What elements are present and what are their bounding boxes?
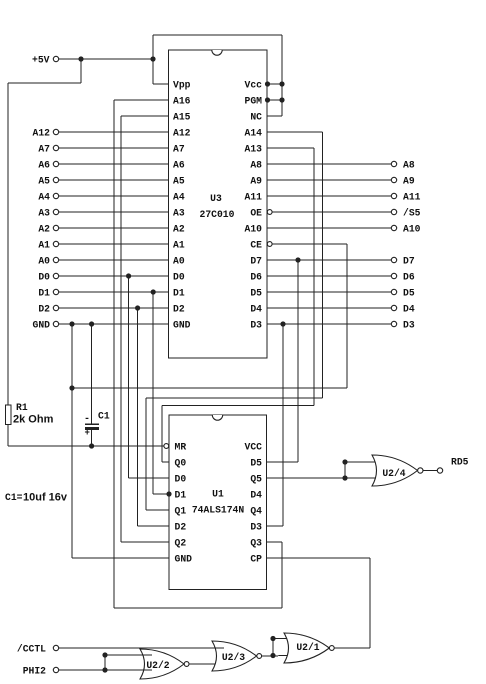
svg-text:D6: D6 — [250, 272, 262, 283]
svg-text:CE: CE — [250, 240, 262, 251]
svg-text:A5: A5 — [38, 176, 50, 187]
wire A6 to U3 — [59, 163, 169, 165]
wire A7 to U3 — [59, 147, 169, 149]
svg-text:A8: A8 — [403, 160, 415, 171]
svg-text:A6: A6 — [173, 160, 185, 171]
junction U2/1 lower input — [270, 653, 275, 658]
svg-text:D4: D4 — [403, 304, 415, 315]
svg-text:74ALS174N: 74ALS174N — [192, 505, 245, 516]
node A5 input terminal — [38, 176, 58, 187]
op chip U1 74ALS174N hex D flip-flop body — [169, 415, 267, 590]
svg-text:-: - — [84, 414, 90, 425]
op chip U3 27C010 EPROM body — [169, 50, 268, 358]
wire U1 D1 stub — [153, 493, 169, 495]
wire OE to /S5 terminal — [272, 211, 391, 213]
junction U1 D1 pin — [166, 491, 171, 496]
wire D0 vertical — [128, 276, 130, 478]
node A7 input terminal — [38, 144, 58, 155]
wire A11 to terminal — [267, 195, 391, 197]
svg-text:A8: A8 — [250, 160, 262, 171]
svg-text:A11: A11 — [245, 192, 263, 203]
svg-text:MR: MR — [175, 442, 187, 453]
svg-text:A13: A13 — [245, 144, 263, 155]
junction Vcc rail — [279, 81, 284, 86]
pin U2/2 output bubble — [184, 662, 189, 667]
svg-text:A0: A0 — [173, 256, 185, 267]
node D6 output terminal — [391, 272, 415, 283]
svg-text:D5: D5 — [250, 288, 262, 299]
node RD5 terminal — [437, 457, 468, 474]
wire clock vertical — [369, 558, 371, 648]
junction U2/2 upper input — [102, 652, 107, 657]
svg-text:U2/1: U2/1 — [296, 642, 319, 653]
wire +5V branch down — [80, 59, 82, 83]
svg-text:/S5: /S5 — [403, 208, 421, 219]
wire A14 vertical — [322, 132, 324, 398]
svg-text:Q3: Q3 — [250, 538, 262, 549]
U1 right pin labels — [245, 442, 263, 565]
or-gate U2/4 — [372, 455, 418, 486]
wire CP stub — [267, 557, 371, 559]
svg-text:A10: A10 — [245, 224, 263, 235]
node A0 input terminal — [38, 256, 58, 267]
svg-text:OE: OE — [250, 208, 262, 219]
svg-text:R1: R1 — [16, 402, 28, 413]
node D7 output terminal — [391, 256, 415, 267]
svg-text:D2: D2 — [175, 522, 187, 533]
wire U1 GND stub — [72, 557, 169, 559]
svg-text:U2/4: U2/4 — [382, 468, 405, 479]
wire A3 to U3 — [59, 211, 169, 213]
wire Q3 wrap horizontal — [114, 607, 282, 609]
svg-text:Q5: Q5 — [250, 474, 262, 485]
wire Q5 to gate — [267, 477, 385, 479]
svg-text:D3: D3 — [250, 522, 262, 533]
svg-text:CP: CP — [250, 554, 262, 565]
wire Q3 vertical — [281, 542, 283, 608]
junction U2/4 upper input — [342, 459, 347, 464]
svg-text:D3: D3 — [403, 320, 415, 331]
wire GND vertical left — [71, 324, 73, 558]
wire +5V down to Vcc — [281, 35, 283, 116]
node D4 output terminal — [391, 304, 415, 315]
svg-text:A14: A14 — [245, 128, 263, 139]
svg-text:Vpp: Vpp — [173, 80, 191, 91]
wire Vpp feed — [153, 83, 169, 85]
wire U2/1 upper input — [273, 638, 296, 640]
wire +5V branch left — [8, 82, 81, 84]
wire U2/4 output — [423, 470, 437, 472]
svg-text:D2: D2 — [173, 304, 185, 315]
svg-text:A11: A11 — [403, 192, 421, 203]
junction GND CE tap — [69, 385, 74, 390]
node D1 input terminal — [38, 288, 58, 299]
pin U2/3 output bubble — [257, 654, 262, 659]
svg-text:A16: A16 — [173, 96, 191, 107]
junction D1 branch — [151, 289, 156, 294]
node A3 input terminal — [38, 208, 58, 219]
svg-text:2k Ohm: 2k Ohm — [13, 414, 54, 426]
svg-text:A1: A1 — [173, 240, 185, 251]
wire U2/3 output — [262, 655, 297, 658]
svg-text:+: + — [85, 428, 90, 438]
node A11 output terminal — [391, 192, 420, 203]
wire A10 to terminal — [267, 227, 391, 229]
junction U2/4 lower input — [342, 475, 347, 480]
or-gate U2/1 — [284, 633, 329, 663]
svg-text:Q2: Q2 — [175, 538, 187, 549]
wire A12 to U3 — [59, 131, 169, 133]
svg-text:27C010: 27C010 — [200, 209, 235, 220]
junction PGM pin — [265, 97, 270, 102]
svg-text:A5: A5 — [173, 176, 185, 187]
junction D0 branch — [126, 273, 131, 278]
svg-text:A10: A10 — [403, 224, 421, 235]
svg-text:D6: D6 — [403, 272, 415, 283]
svg-text:Q4: Q4 — [250, 506, 262, 517]
wire A2 to U3 — [59, 227, 169, 229]
wire C1 top lead — [91, 324, 93, 424]
wire D1 to U3 — [59, 291, 169, 293]
wire D3 down to U1 D3 — [282, 324, 284, 526]
node A10 output terminal — [391, 224, 420, 235]
wire reset line to MR — [8, 445, 164, 447]
or-gate U2/2 — [140, 649, 184, 679]
wire A4 to U3 — [59, 195, 169, 197]
svg-text:VCC: VCC — [245, 442, 263, 453]
wire U2/2 input tie vertical — [104, 655, 106, 670]
pin OE bubble — [267, 210, 272, 215]
svg-text:A0: A0 — [38, 256, 50, 267]
junction GND branch to C1 — [89, 321, 94, 326]
node /S5 output terminal — [391, 208, 420, 219]
junction U2/1 upper input — [270, 636, 275, 641]
wire Q1 wrap horizontal — [146, 397, 323, 399]
wire CE to ground drop — [272, 243, 347, 245]
junction +5V tee — [150, 56, 155, 61]
svg-text:D3: D3 — [250, 320, 262, 331]
wire Q1 stub — [146, 509, 169, 511]
wire D2 vertical — [137, 308, 139, 526]
wire left rail down to R1 — [7, 83, 9, 405]
wire PHI2 to gate — [59, 669, 152, 671]
svg-text:A12: A12 — [173, 128, 191, 139]
svg-text:D4: D4 — [250, 490, 262, 501]
wire +5V top run — [153, 34, 282, 36]
wire U1 D3 stub — [267, 525, 284, 527]
wire A13 stub — [267, 147, 314, 149]
node GND input terminal — [33, 320, 59, 331]
svg-text:GND: GND — [175, 554, 193, 565]
wire A5 to U3 — [59, 179, 169, 181]
svg-text:+5V: +5V — [32, 55, 50, 66]
wire Q3 stub — [267, 541, 283, 543]
U3 right pin labels — [245, 80, 263, 331]
or-gate U2/3 — [212, 641, 257, 671]
svg-text:A1: A1 — [38, 240, 50, 251]
junction +5V branch to R1 — [78, 56, 83, 61]
svg-text:D7: D7 — [250, 256, 262, 267]
wire D7 down to U1 D5 — [297, 260, 299, 462]
svg-text:PGM: PGM — [245, 96, 263, 107]
pin U2/4 output bubble — [418, 468, 423, 473]
svg-text:C1: C1 — [98, 411, 110, 422]
svg-text:D1: D1 — [38, 288, 50, 299]
svg-text:D2: D2 — [38, 304, 50, 315]
svg-text:D5: D5 — [250, 458, 262, 469]
svg-text:U2/2: U2/2 — [146, 660, 169, 671]
node +5V terminal and label — [32, 55, 59, 66]
pin MR bubble — [164, 444, 169, 449]
node D2 input terminal — [38, 304, 58, 315]
svg-text:D7: D7 — [403, 256, 415, 267]
wire A13 vertical — [313, 148, 315, 406]
svg-text:RD5: RD5 — [451, 457, 469, 468]
pin U2/1 output bubble — [329, 646, 334, 651]
wire +5V up over U3 — [152, 35, 154, 84]
svg-text:A9: A9 — [250, 176, 262, 187]
junction Vcc pin — [265, 81, 270, 86]
svg-text:10uf 16v: 10uf 16v — [23, 492, 68, 504]
wire /CCTL to U2/3 — [59, 647, 224, 649]
wire U2/2 upper input — [105, 654, 152, 656]
junction D2 branch — [135, 305, 140, 310]
resistor R1 — [6, 402, 28, 425]
node A2 input terminal — [38, 224, 58, 235]
svg-text:D0: D0 — [38, 272, 50, 283]
node D3 output terminal — [391, 320, 415, 331]
wire D5 to terminal — [267, 291, 391, 293]
junction D3 branch — [280, 321, 285, 326]
svg-text:D4: D4 — [250, 304, 262, 315]
wire A15 vertical — [120, 116, 122, 542]
wire U2/1 input tie vertical — [272, 639, 274, 656]
wire Q0 stub — [162, 461, 169, 463]
svg-text:D0: D0 — [173, 272, 185, 283]
wire D3 to terminal — [267, 323, 391, 325]
svg-text:NC: NC — [250, 112, 262, 123]
junction D7 branch — [295, 257, 300, 262]
wire Q0 wrap horizontal — [162, 405, 314, 407]
svg-text:A4: A4 — [38, 192, 50, 203]
wire U2/1 output — [334, 647, 370, 649]
wire U1 D5 stub — [267, 461, 299, 463]
wire A15 stub — [121, 115, 169, 117]
node A12 input terminal — [33, 128, 59, 139]
wire Q1 vertical — [145, 398, 147, 510]
svg-text:U1: U1 — [212, 489, 224, 500]
wire U1 D0 stub — [129, 477, 169, 479]
wire D0 to U3 — [59, 275, 169, 277]
wire A0 to U3 — [59, 259, 169, 261]
wire D1 vertical — [152, 292, 154, 494]
wire R1 bottom lead — [7, 425, 9, 447]
svg-text:/CCTL: /CCTL — [17, 644, 46, 655]
wire GND to CE horizontal — [72, 387, 347, 389]
svg-text:A15: A15 — [173, 112, 191, 123]
wire A9 to terminal — [267, 179, 391, 181]
svg-text:GND: GND — [173, 320, 191, 331]
svg-text:A3: A3 — [173, 208, 185, 219]
node A8 output terminal — [391, 160, 415, 171]
svg-text:D1: D1 — [173, 288, 185, 299]
svg-text:U2/3: U2/3 — [222, 652, 245, 663]
node A9 output terminal — [391, 176, 415, 187]
svg-text:A9: A9 — [403, 176, 415, 187]
capacitor C1 — [84, 411, 110, 439]
wire U2/4 input tie vertical — [344, 462, 346, 478]
svg-text:Vcc: Vcc — [245, 80, 263, 91]
node A1 input terminal — [38, 240, 58, 251]
wire +5V horizontal to junction — [59, 58, 153, 60]
svg-text:A2: A2 — [173, 224, 185, 235]
wire A16 stub — [114, 99, 169, 101]
svg-text:D5: D5 — [403, 288, 415, 299]
wire D2 to U3 — [59, 307, 169, 309]
pin CE bubble — [267, 242, 272, 247]
wire PGM pin stub — [267, 99, 282, 101]
U1 left pin labels — [175, 442, 193, 565]
node A6 input terminal — [38, 160, 58, 171]
label C1 value — [5, 492, 68, 504]
svg-text:U3: U3 — [210, 193, 222, 204]
svg-text:A2: A2 — [38, 224, 50, 235]
wire U1 D2 stub — [138, 525, 169, 527]
wire D4 to terminal — [267, 307, 391, 309]
svg-text:Q0: Q0 — [175, 458, 187, 469]
svg-text:A7: A7 — [38, 144, 50, 155]
wire U2/4 upper input — [345, 461, 384, 463]
wire Q0 vertical — [161, 406, 163, 463]
wire GND to U3 — [59, 323, 169, 325]
svg-text:Q1: Q1 — [175, 506, 187, 517]
wire A1 to U3 — [59, 243, 169, 245]
svg-text:D0: D0 — [175, 474, 187, 485]
svg-text:C1=: C1= — [5, 492, 23, 503]
wire C1 bottom lead — [91, 430, 93, 446]
wire D7 to terminal — [267, 259, 391, 261]
svg-text:D1: D1 — [175, 490, 187, 501]
wire A16 vertical — [113, 100, 115, 608]
svg-text:PHI2: PHI2 — [23, 666, 46, 677]
wire Vcc pin stub — [267, 83, 282, 85]
junction PGM rail — [279, 97, 284, 102]
svg-text:A3: A3 — [38, 208, 50, 219]
U3 left pin labels — [173, 80, 191, 331]
junction PHI2 tie — [102, 667, 107, 672]
svg-text:GND: GND — [33, 320, 51, 331]
wire A14 stub — [267, 131, 323, 133]
wire Q2 stub — [121, 541, 169, 543]
svg-text:A6: A6 — [38, 160, 50, 171]
node D0 input terminal — [38, 272, 58, 283]
svg-text:A12: A12 — [33, 128, 51, 139]
node PHI2 input terminal — [23, 666, 59, 677]
node D5 output terminal — [391, 288, 415, 299]
wire CE vertical down — [346, 244, 348, 388]
svg-text:A4: A4 — [173, 192, 185, 203]
junction GND branch to CE — [69, 321, 74, 326]
wire U2/2 output to U2/3 — [189, 663, 224, 665]
wire A8 to terminal — [267, 163, 391, 165]
wire NC pin stub — [267, 115, 282, 117]
junction C1 to reset line — [89, 443, 94, 448]
wire D6 to terminal — [267, 275, 391, 277]
node /CCTL input terminal — [17, 644, 59, 655]
node A4 input terminal — [38, 192, 58, 203]
svg-text:A7: A7 — [173, 144, 185, 155]
